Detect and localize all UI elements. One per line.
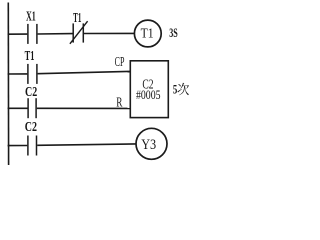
svg-text:C2: C2 <box>25 85 37 100</box>
svg-text:3S: 3S <box>169 26 178 40</box>
svg-text:Y3: Y3 <box>141 137 156 153</box>
svg-text:T1: T1 <box>141 25 154 40</box>
svg-text:X1: X1 <box>26 9 36 24</box>
svg-text:CP: CP <box>115 55 125 70</box>
svg-text:#0005: #0005 <box>136 87 161 102</box>
svg-text:C2: C2 <box>25 120 37 135</box>
svg-text:5: 5 <box>173 82 178 97</box>
svg-text:R: R <box>116 95 123 110</box>
svg-text:T1: T1 <box>73 11 81 26</box>
svg-text:T1: T1 <box>25 49 35 64</box>
